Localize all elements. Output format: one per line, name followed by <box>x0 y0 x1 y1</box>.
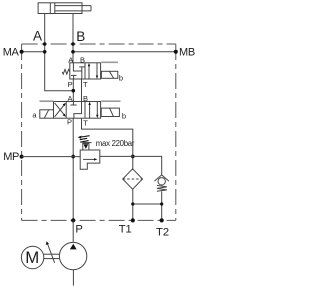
valve V2 solenoid a box <box>40 110 54 118</box>
motor shaft <box>44 253 60 255</box>
pump circle <box>59 242 86 269</box>
check valve CV spring <box>157 185 167 191</box>
svg-text:B: B <box>76 29 85 44</box>
valve V1 right position up arrow <box>88 65 90 79</box>
relief valve flow arrow <box>83 158 95 160</box>
wire: MA line <box>22 51 45 53</box>
svg-text:MA: MA <box>3 47 20 59</box>
node MP port dot <box>20 155 24 159</box>
svg-text:A: A <box>68 94 73 103</box>
filter F1 diamond <box>123 169 143 189</box>
valve V1 left position path A to T <box>73 63 81 71</box>
check valve CV ball <box>158 178 165 185</box>
valve V2 cross position <box>55 105 65 117</box>
relief valve RV body <box>80 150 100 169</box>
wire: T1-T2 connector <box>133 203 162 205</box>
wire: P port to pump <box>72 220 74 242</box>
wire: branch to check valve <box>133 156 162 175</box>
node T1 mid dot <box>131 155 135 159</box>
valve V1 solenoid b box <box>101 71 117 78</box>
svg-text:T: T <box>83 118 88 127</box>
node T2 connector dot <box>160 202 163 205</box>
check valve CV seat <box>154 175 169 181</box>
node T1 port dot <box>131 218 135 222</box>
svg-text:T1: T1 <box>119 224 132 236</box>
wire: T line to elbow <box>82 118 133 170</box>
valve V2 center blocked A <box>72 102 74 106</box>
node B junction dot <box>71 50 75 54</box>
relief valve poppet box <box>83 144 89 151</box>
wire: check valve to T2 port <box>161 191 163 220</box>
valve V1 spring <box>62 69 70 74</box>
valve V2 center B to P path <box>74 102 82 119</box>
svg-text:T2: T2 <box>156 226 169 238</box>
cylinder body <box>38 3 82 14</box>
svg-text:P: P <box>68 80 73 89</box>
wire: V1 P to V2 A <box>72 79 74 102</box>
svg-text:M: M <box>25 248 39 267</box>
wire: V1 T to V2 B <box>81 79 83 102</box>
wire: cylinder B line <box>72 14 74 63</box>
motor rotation arrow <box>47 243 54 263</box>
cylinder rod <box>55 5 91 7</box>
valve V2 solenoid b box <box>101 108 119 116</box>
svg-text:b: b <box>119 74 123 83</box>
relief valve spring adjust symbol <box>80 136 90 143</box>
wire: pump suction <box>72 270 74 286</box>
wire: P line down <box>72 118 74 220</box>
svg-text:MP: MP <box>3 151 19 163</box>
node A junction dot <box>43 50 47 54</box>
enclosure dashed border <box>22 44 176 220</box>
wire: MP line <box>22 156 81 158</box>
svg-text:A: A <box>33 29 42 44</box>
pump triangle <box>70 244 77 250</box>
node T1 connector dot <box>131 202 134 205</box>
wire: cylinder A line <box>45 14 74 91</box>
node A border dot <box>43 42 47 46</box>
valve V2 right position up arrow <box>89 103 91 118</box>
valve V1 body <box>70 63 101 79</box>
svg-text:MB: MB <box>179 47 195 59</box>
wire: MB line <box>73 51 176 53</box>
valve V2 gray bar left <box>40 100 54 102</box>
node MA port dot <box>20 50 24 54</box>
svg-text:A: A <box>68 56 73 65</box>
svg-text:B: B <box>80 56 85 65</box>
wire: filter to T1 port <box>132 189 134 220</box>
svg-text:b: b <box>122 111 126 120</box>
node T2 port dot <box>160 218 164 222</box>
node V1P junction dot <box>72 89 76 93</box>
valve V2 gray bar right <box>101 100 120 102</box>
valve V2 body <box>54 102 101 119</box>
wire: relief outlet to T1 line <box>100 155 133 157</box>
svg-text:P: P <box>75 224 82 236</box>
svg-text:T: T <box>83 80 88 89</box>
svg-text:max 220bar: max 220bar <box>96 139 135 148</box>
node MB port dot <box>174 50 178 54</box>
node P port dot <box>71 218 75 222</box>
node B border dot <box>71 42 75 46</box>
svg-text:P: P <box>67 118 72 127</box>
svg-text:B: B <box>83 94 88 103</box>
cylinder piston <box>49 3 51 14</box>
svg-text:a: a <box>32 111 37 120</box>
motor circle <box>21 246 43 268</box>
valve V1 blocked P <box>71 74 77 76</box>
valve V1 right position down arrow <box>96 63 98 78</box>
valve V2 right position down arrow <box>96 102 98 117</box>
valve V1 gray bar <box>101 61 118 63</box>
node P-MP junction dot <box>71 155 75 159</box>
